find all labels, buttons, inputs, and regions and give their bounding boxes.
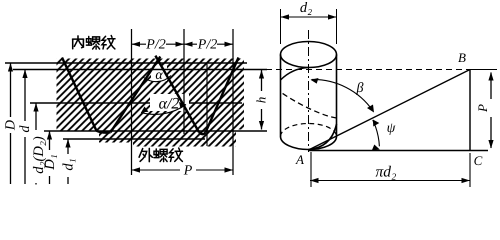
d2(D2) dimension arrow [35,104,37,185]
svg-text:P/2: P/2 [145,38,165,53]
svg-text:α: α [155,68,163,83]
cylinder centerline dash-dot [308,30,310,152]
P/2 dimension line right [184,43,233,45]
pi-d2 dimension line [310,180,470,182]
profile flank groove2 right [206,58,239,133]
D line [5,62,247,64]
psi arc arrowhead bottom [372,145,380,151]
P/2 extension line left [131,29,133,175]
psi angle arc [373,120,380,146]
svg-text:πd₂: πd₂ [376,164,398,181]
D1 dimension arrow [49,132,51,185]
P/2 dimension line left [132,43,185,45]
d dimension arrow [24,70,26,184]
pi-d2 arrows [310,178,319,183]
D1 line [44,130,267,132]
alpha/2 arc arrowhead left [141,107,149,113]
svg-text:P: P [183,164,193,179]
nei-luo-wen label 内螺纹 [73,36,84,49]
line AC [309,150,489,152]
svg-text:P: P [475,104,490,113]
svg-text:d₁: d₁ [61,158,77,170]
line BC [469,70,471,151]
cylinder left side [280,55,282,137]
helix front lower quarter [309,124,337,150]
d2 extension lines [280,9,282,44]
P/2 left arrows [132,42,141,47]
pi-d2 extension lines [310,152,312,187]
cylinder bottom ellipse back arc dashed [281,124,337,137]
beta arc arrowhead top [311,78,319,84]
profile flank groove1 left [62,58,97,131]
dashed line from helix top to B [266,69,470,71]
line B right extension [470,69,497,71]
psi arc arrowhead top [373,120,380,127]
svg-text:h: h [254,97,269,104]
d1 dimension arrow [67,140,69,185]
svg-text:ψ: ψ [387,121,396,136]
d2 arrows [281,14,290,19]
white halo for alpha label [151,66,167,81]
wai-luo-wen label 外螺纹 [139,148,152,161]
profile flank tooth1 left [111,57,161,133]
P dimension right [490,73,492,149]
beta angle arc [312,79,374,111]
line AB [309,70,471,151]
pitch line d2(D2) [30,102,242,104]
svg-text:A: A [295,152,304,167]
cylinder top ellipse [281,42,337,68]
profile root groove1 [97,131,111,133]
P/2 extension line middle [183,29,185,134]
cylinder bottom ellipse front arc [281,137,337,150]
h dimension [261,70,263,130]
P/2 extension line right [232,29,234,175]
svg-text:α/2: α/2 [159,96,180,113]
alpha angle arc [143,76,171,82]
svg-text:B: B [458,50,466,65]
P arrows [132,167,141,172]
white halo for alpha/2 label [150,94,189,111]
d line [13,69,267,71]
d1 line [63,138,205,140]
helix front upper quarter [281,68,309,81]
svg-text:P/2: P/2 [197,38,217,53]
profile flank tooth1 right [155,56,199,133]
svg-text:C: C [474,153,483,168]
svg-text:d: d [18,125,33,133]
P/2 right arrows [184,42,193,47]
cylinder right side [336,55,338,137]
svg-text:D: D [4,120,19,131]
groove 2 centerline [206,64,208,146]
P dimension line [132,169,234,171]
D dimension arrow [10,64,12,185]
alpha/2 angle arc [141,105,186,115]
svg-text:d₂: d₂ [300,0,312,16]
profile root groove2 [199,132,206,134]
helix back half dashed [281,92,337,118]
d2 dimension line [281,16,337,18]
alpha/2 arc arrowhead right [179,102,186,109]
hatched material region (nut above + bolt below profile) [57,59,245,147]
svg-text:D₁: D₁ [42,154,58,171]
svg-text:β: β [356,81,364,96]
beta arc arrowhead bottom [367,105,374,113]
